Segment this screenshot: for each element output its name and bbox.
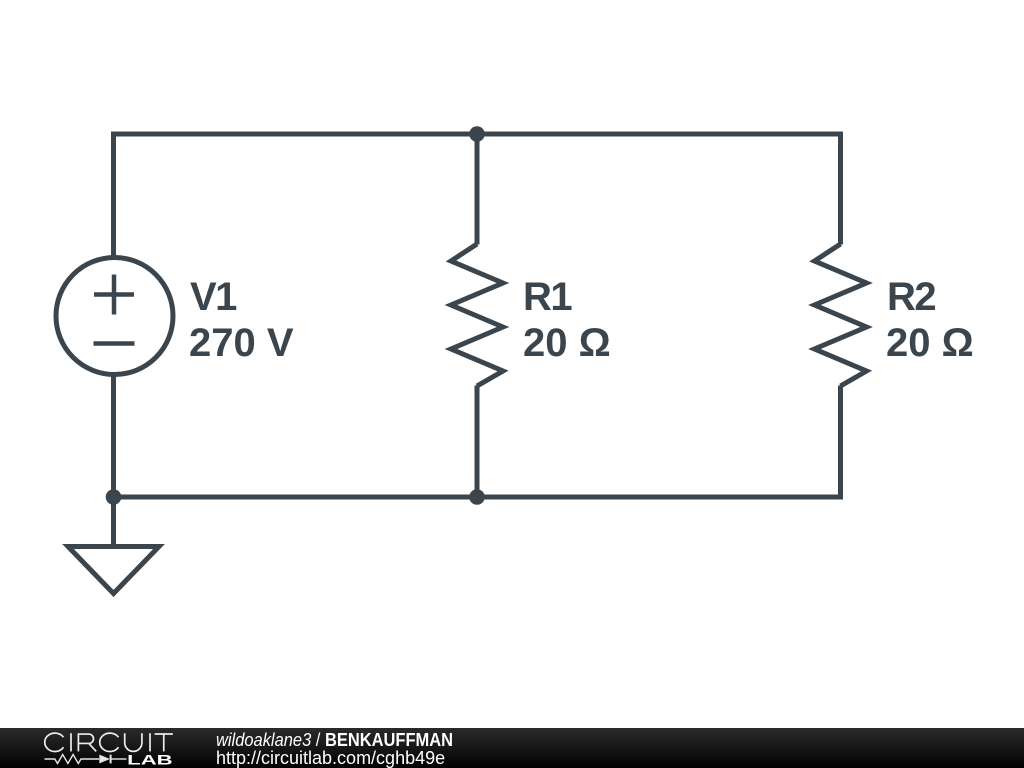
ground	[68, 547, 159, 594]
svg-text:LAB: LAB	[127, 751, 173, 767]
svg-text:R1: R1	[523, 275, 572, 319]
wire R1 top lead	[475, 134, 480, 245]
node bottom-middle junction	[469, 489, 485, 505]
svg-text:270 V: 270 V	[189, 321, 294, 365]
node top junction	[469, 126, 485, 142]
resistor R1	[451, 244, 503, 386]
svg-text:20 Ω: 20 Ω	[886, 321, 974, 365]
CircuitLab logo resistor-diode symbol	[45, 755, 100, 764]
wire R1 bottom lead	[475, 386, 480, 498]
svg-text:V1: V1	[190, 275, 237, 319]
svg-text:20 Ω: 20 Ω	[523, 321, 611, 365]
resistor R2	[815, 244, 867, 386]
wire bottom net: V1 bottom to R1/R2 bottoms	[114, 376, 841, 497]
CircuitLab logo wordmark CIRCUIT	[45, 733, 173, 751]
footer credit text	[216, 731, 475, 767]
wire top net: V1 top to R1/R2 tops	[114, 134, 841, 257]
voltage source V1	[56, 258, 173, 375]
wire ground lead	[111, 497, 116, 548]
footer bar	[0, 728, 1024, 768]
svg-text:R2: R2	[887, 275, 935, 319]
node bottom-left junction	[106, 489, 122, 505]
